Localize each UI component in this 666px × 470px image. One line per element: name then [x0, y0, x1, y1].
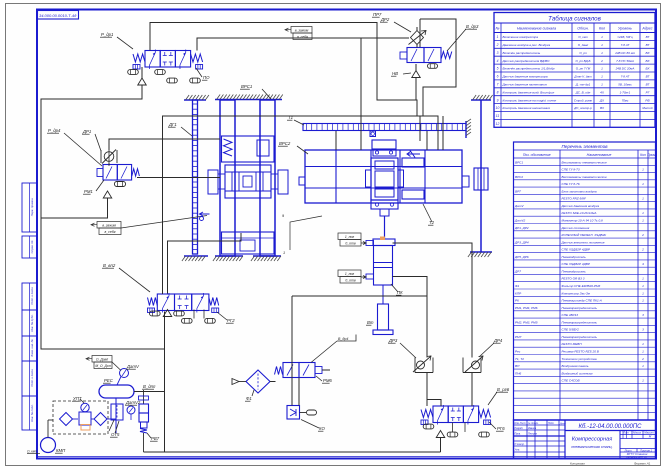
svg-text:1: 1	[642, 299, 644, 303]
tag node в_зажим/в_себя (top)	[291, 27, 312, 34]
svg-text:Пневмодроссель: Пневмодроссель	[562, 269, 587, 273]
svg-text:1: 1	[601, 83, 603, 87]
svg-text:О_Давл: О_Давл	[96, 357, 108, 361]
svg-text:Контроль давления на magist. т: Контроль давления на magist. точке	[503, 98, 557, 102]
svg-text:Справ. №: Справ. №	[30, 241, 34, 254]
svg-text:5: 5	[497, 67, 499, 71]
svg-text:Поз. обозначение: Поз. обозначение	[523, 153, 551, 157]
tag node В_др4	[337, 335, 356, 342]
svg-text:1: 1	[642, 379, 644, 383]
wire: КО outlet	[322, 369, 330, 371]
svg-text:Подп. и дата: Подп. и дата	[30, 369, 34, 387]
svg-text:ВРС2: ВРС2	[515, 175, 523, 179]
svg-text:Вт: Вт	[367, 320, 374, 325]
wire: РМ1 supply branch	[41, 199, 108, 219]
pressure gauge ДатV2	[127, 406, 135, 414]
svg-text:СПЕ 4ВУ43: СПЕ 4ВУ43	[562, 313, 579, 317]
svg-text:В_др3: В_др3	[466, 24, 479, 29]
svg-text:В_дпп: В_дпп	[143, 384, 156, 389]
svg-text:1: 1	[642, 182, 644, 186]
svg-text:Подп.: Подп.	[548, 422, 555, 425]
svg-text:Пневмораспределитель: Пневмораспределитель	[562, 335, 598, 339]
svg-text:СПЕ XSДВ2Р 4ДВР: СПЕ XSДВ2Р 4ДВР	[562, 262, 591, 266]
svg-text:2: 2	[641, 233, 644, 237]
horizontal beam Т1 with rack	[303, 124, 466, 131]
svg-text:FESTO SDE-10-Рк/10мА: FESTO SDE-10-Рк/10мА	[562, 211, 597, 215]
svg-text:ВРС1: ВРС1	[241, 84, 253, 89]
svg-text:7-8 АТ: 7-8 АТ	[621, 43, 631, 47]
wire: РМ1 output to press	[137, 177, 220, 179]
svg-text:Датчик распределителя ВД/ВО: Датчик распределителя ВД/ВО	[502, 59, 550, 63]
svg-text:в_себя: в_себя	[105, 230, 116, 234]
svg-text:Разраб.: Разраб.	[515, 427, 524, 430]
svg-text:1: 1	[642, 342, 644, 346]
svg-text:1-70м-1: 1-70м-1	[620, 90, 631, 94]
svg-text:СПЕ ГУ 8-73: СПЕ ГУ 8-73	[562, 168, 580, 172]
svg-text:Воздушный силенсер: Воздушный силенсер	[562, 371, 593, 375]
svg-text:Рес: Рес	[515, 350, 521, 354]
svg-text:ДР3: ДР3	[388, 338, 398, 343]
svg-text:Прим.: Прим.	[647, 153, 656, 157]
svg-text:1: 1	[642, 350, 644, 354]
svg-text:О_рп ВД.Б: О_рп ВД.Б	[576, 59, 591, 63]
title block (основная надпись)	[514, 420, 656, 459]
svg-text:Т1: Т1	[288, 115, 294, 120]
svg-text:СПЕ С4СОВ: СПЕ С4СОВ	[562, 379, 580, 383]
svg-text:Дата: Дата	[559, 423, 567, 425]
svg-text:ДР7: ДР7	[514, 269, 521, 273]
wire: РЕС to bus	[134, 391, 165, 393]
wire: beam to ВРС2 hangers	[336, 131, 427, 150]
svg-text:4: 4	[497, 59, 499, 63]
svg-text:1: 1	[283, 251, 285, 255]
pressure gauge ДатV	[120, 369, 129, 378]
tag node 1_пол/0_отв (upper)	[338, 233, 361, 240]
svg-text:Ф1: Ф1	[246, 396, 252, 401]
svg-text:ВРС2: ВРС2	[279, 141, 291, 146]
top-left document stamp	[38, 11, 79, 20]
svg-text:4: 4	[642, 262, 644, 266]
svg-text:в_себя: в_себя	[297, 35, 308, 39]
svg-text:КО: КО	[319, 426, 325, 431]
svg-text:Блок заготовки воздуха: Блок заготовки воздуха	[562, 189, 597, 193]
svg-text:Наименование сигнала: Наименование сигнала	[517, 27, 556, 31]
svg-text:Строй_римп: Строй_римп	[574, 98, 593, 102]
svg-text:2: 2	[496, 43, 499, 47]
check valve КО	[287, 406, 300, 420]
svg-text:2: 2	[600, 59, 603, 63]
tag node в_зажим/в_себя (left)	[97, 222, 121, 229]
wire: bottom supply bus	[144, 438, 441, 453]
svg-text:Весозахваты пневматические: Весозахваты пневматические	[562, 160, 607, 164]
svg-text:Давление воздуха в рес. Воздух: Давление воздуха в рес. Воздуха	[502, 43, 551, 47]
svg-text:О_кмп: О_кмп	[27, 450, 37, 454]
svg-text:РЕС: РЕС	[104, 378, 114, 383]
svg-text:ДС_контр-р: ДС_контр-р	[573, 106, 592, 110]
svg-text:1: 1	[642, 211, 644, 215]
svg-text:Воздушная панель: Воздушная панель	[562, 364, 589, 368]
svg-text:Утв.: Утв.	[515, 449, 521, 452]
throttle check valve ДР2	[411, 31, 424, 45]
horizontal press ВРС2	[305, 150, 462, 203]
svg-text:СПЕ 5/3ВУ2: СПЕ 5/3ВУ2	[562, 328, 580, 332]
svg-text:О_рп: О_рп	[579, 51, 587, 55]
svg-text:ПК: ПК	[397, 290, 403, 295]
svg-text:РМ1, РМ4, РМ6: РМ1, РМ4, РМ6	[515, 306, 538, 310]
svg-text:Перв. примен.: Перв. примен.	[30, 197, 34, 216]
svg-text:Инв. № подл.: Инв. № подл.	[30, 404, 34, 422]
svg-text:1: 1	[642, 291, 644, 295]
throttle ДР4	[462, 358, 464, 373]
svg-text:Весозахваты пневматические: Весозахваты пневматические	[562, 175, 607, 179]
svg-text:9: 9	[497, 98, 499, 102]
vertical press ВРС1	[215, 99, 282, 101]
svg-text:10: 10	[496, 106, 500, 110]
svg-text:Пров.: Пров.	[515, 433, 522, 436]
svg-text:М_О_Доп: М_О_Доп	[95, 364, 111, 368]
svg-text:КПР: КПР	[515, 291, 522, 295]
svg-text:№: №	[496, 27, 500, 31]
wire: ПК upper port to РМ5 via ДР4	[393, 243, 473, 406]
svg-text:В_вп2: В_вп2	[103, 263, 116, 268]
svg-text:11: 11	[496, 114, 500, 118]
svg-text:Датчик давления воздуха: Датчик давления воздуха	[561, 204, 600, 208]
stop cylinder Вт	[382, 285, 384, 304]
svg-text:Манометр 10-А 94 10 Ть 0,8: Манометр 10-А 94 10 Ть 0,8	[562, 219, 604, 223]
svg-text:FESTO FRZ-5/8F: FESTO FRZ-5/8F	[562, 197, 587, 201]
svg-text:7-8 ПС 50мА: 7-8 ПС 50мА	[616, 59, 634, 63]
svg-text:Р_др4: Р_др4	[48, 128, 61, 133]
svg-text:РМ6: РМ6	[323, 378, 332, 383]
svg-text:1: 1	[642, 219, 644, 223]
svg-text:Компрессорная: Компрессорная	[572, 437, 612, 443]
svg-text:Кб.-12-04.00.00.000ПС: Кб.-12-04.00.00.000ПС	[579, 424, 643, 430]
left margin stamp boxes	[22, 183, 37, 232]
pressure regulator КлР	[143, 390, 145, 404]
svg-text:Формат А1: Формат А1	[634, 462, 651, 466]
svg-text:ДГ1: ДГ1	[168, 122, 177, 127]
receiver РЕС	[99, 385, 134, 398]
svg-text:Взам. инв. №: Взам. инв. №	[30, 339, 34, 356]
valve body РМ5	[421, 410, 433, 418]
svg-text:=24В, 50Гц: =24В, 50Гц	[617, 35, 633, 39]
svg-text:34.000.00.0010-Т-4д: 34.000.00.0010-Т-4д	[39, 13, 77, 18]
svg-text:кафедра АТП гр.: кафедра АТП гр.	[626, 455, 647, 459]
svg-text:Датчик внешнего положения: Датчик внешнего положения	[561, 240, 605, 244]
svg-text:70мс: 70мс	[622, 98, 629, 102]
svg-text:Контроль давления возд. Востфи: Контроль давления возд. Востфил	[503, 90, 555, 94]
wire: top valve pilot A	[150, 23, 417, 117]
svg-text:Изм Лист: Изм Лист	[515, 422, 526, 425]
svg-text:Пневмораспределитель: Пневмораспределитель	[562, 306, 598, 310]
svg-text:О_давл: О_давл	[578, 43, 589, 47]
svg-text:24В DC 80 мА: 24В DC 80 мА	[614, 51, 635, 55]
svg-text:Подп. и дата: Подп. и дата	[30, 287, 34, 305]
svg-text:КМП: КМП	[56, 448, 66, 453]
svg-text:ДР3, ДР4: ДР3, ДР4	[514, 240, 529, 244]
svg-text:0_отв: 0_отв	[345, 278, 355, 282]
svg-text:2: 2	[641, 248, 644, 252]
svg-text:О_рп 7 ПК: О_рп 7 ПК	[576, 67, 591, 71]
svg-text:Уровень: Уровень	[618, 27, 632, 31]
svg-text:пневматическая станц.: пневматическая станц.	[571, 445, 612, 449]
svg-text:Датчик давления нагнетания: Датчик давления нагнетания	[502, 83, 547, 87]
directional valve РМ1 (left 3/2)	[103, 165, 117, 181]
svg-text:Н.контр.: Н.контр.	[515, 443, 525, 446]
directional valve НВ (top right 3/2)	[407, 48, 424, 63]
wire: РМ3 to beam drive	[168, 233, 242, 294]
throttle ДР3	[414, 358, 416, 373]
svg-text:1: 1	[642, 277, 644, 281]
svg-text:в_зажим: в_зажим	[295, 28, 309, 32]
svg-text:ОТ5: ОТ5	[111, 432, 120, 437]
svg-text:5В, 10мкс: 5В, 10мкс	[618, 83, 632, 87]
directional valve РМ6 (bottom right 3/2)	[275, 367, 283, 375]
svg-text:3: 3	[497, 51, 499, 55]
svg-text:7-8 АТ: 7-8 АТ	[621, 75, 631, 79]
svg-text:№ докум.: № докум.	[528, 422, 539, 425]
svg-text:Датчик давления компрессора: Датчик давления компрессора	[502, 75, 548, 79]
svg-text:ДР1, ДР2: ДР1, ДР2	[514, 226, 529, 230]
svg-text:ВП: ВП	[515, 364, 520, 368]
svg-text:ДатV2: ДатV2	[514, 219, 526, 223]
svg-text:Пневмодроссель: Пневмодроссель	[562, 255, 587, 259]
svg-text:ДР1: ДР1	[82, 129, 92, 134]
svg-text:Включён распределитель 1/1,В/о: Включён распределитель 1/1,В/обр	[503, 67, 555, 71]
svg-text:Инв. № дубл.: Инв. № дубл.	[30, 314, 34, 331]
svg-text:ПО: ПО	[203, 75, 210, 80]
svg-text:Включение компрессора: Включение компрессора	[503, 35, 539, 39]
machine boundary box	[163, 116, 444, 294]
svg-text:Т1, Т2: Т1, Т2	[515, 357, 524, 361]
svg-text:РМ2, РМ3, РМ5: РМ2, РМ3, РМ5	[515, 320, 538, 324]
svg-text:РМ7: РМ7	[515, 335, 522, 339]
svg-text:Р_др1: Р_др1	[101, 32, 114, 37]
vertical guide rail ДГ1	[184, 99, 206, 101]
svg-text:РМ1: РМ1	[84, 189, 93, 194]
svg-text:Толкатели устройства: Толкатели устройства	[562, 357, 597, 361]
svg-text:Д-мп-V_дат: Д-мп-V_дат	[573, 75, 592, 79]
svg-text:Обозн.: Обозн.	[577, 27, 588, 31]
wire: top valve pilot B	[197, 38, 409, 150]
svg-text:2: 2	[641, 357, 644, 361]
svg-text:Ресивер FESTO RZS 20 В: Ресивер FESTO RZS 20 В	[562, 350, 599, 354]
svg-text:FESTO МЕВН: FESTO МЕВН	[562, 342, 583, 346]
svg-text:Включён распределитель: Включён распределитель	[503, 51, 541, 55]
svg-text:Метод: Метод	[642, 106, 653, 110]
boundary box ПР7	[420, 19, 456, 116]
svg-text:ДатV2: ДатV2	[125, 400, 141, 405]
svg-text:РГ6: РГ6	[497, 426, 505, 431]
svg-text:1_пол: 1_пол	[345, 272, 354, 276]
svg-text:Перечень элементов: Перечень элементов	[561, 144, 608, 149]
svg-text:3: 3	[642, 313, 644, 317]
wire: РМ1 pilot from ДР1	[109, 139, 220, 165]
svg-text:ДатV: ДатV	[514, 204, 524, 208]
svg-text:ДС_В_одн: ДС_В_одн	[575, 90, 591, 94]
svg-text:ДР4: ДР4	[493, 338, 503, 343]
ceiling support right	[471, 99, 491, 101]
svg-text:FESTO GR В3 3: FESTO GR В3 3	[562, 277, 585, 281]
outer frame thin black bottom line	[8, 465, 660, 467]
svg-text:О_кмп: О_кмп	[578, 35, 587, 39]
throttle check valve ДР1	[100, 150, 102, 163]
svg-text:ДР2: ДР2	[380, 17, 390, 22]
svg-text:РГ2: РГ2	[227, 318, 235, 323]
svg-text:Адрес: Адрес	[641, 27, 652, 31]
pneumatic cylinder ПК	[373, 239, 395, 246]
valve body РМ2	[133, 54, 145, 62]
svg-text:1: 1	[601, 51, 603, 55]
wire: РМ3 down to bottom bus	[164, 312, 166, 453]
svg-text:ПР7: ПР7	[373, 12, 382, 17]
svg-text:Контроль давления нагнетания: Контроль давления нагнетания	[503, 106, 551, 110]
svg-text:Фильтр СПЕ Е4РВ26-РМ3: Фильтр СПЕ Е4РВ26-РМ3	[562, 284, 601, 288]
svg-text:6: 6	[497, 75, 499, 79]
svg-text:8: 8	[497, 90, 499, 94]
svg-text:РВ: РВ	[645, 98, 649, 102]
svg-text:1: 1	[642, 168, 644, 172]
valve body РМ3	[148, 298, 158, 306]
elements list table (Перечень элементов)	[514, 142, 656, 420]
svg-text:СПЕ XSДВ2Р 4ДВР: СПЕ XSДВ2Р 4ДВР	[562, 248, 591, 252]
svg-text:ДР5, ДР6: ДР5, ДР6	[514, 255, 529, 259]
svg-text:Иванов: Иванов	[528, 427, 537, 430]
svg-text:ВРС1: ВРС1	[515, 160, 523, 164]
svg-text:РК: РК	[515, 299, 519, 303]
signal table (Таблица сигналов)	[494, 13, 655, 128]
tag node О_Давл/М_О_Доп	[92, 356, 112, 363]
svg-text:1: 1	[601, 67, 603, 71]
svg-text:В_др4: В_др4	[338, 337, 348, 341]
svg-text:РГ: РГ	[646, 90, 650, 94]
svg-text:Копировал: Копировал	[570, 462, 585, 466]
svg-text:Лит: Лит	[622, 431, 629, 435]
svg-text:СПЕ ГУ 8-76: СПЕ ГУ 8-76	[562, 182, 580, 186]
svg-text:1: 1	[642, 197, 644, 201]
svg-text:1: 1	[601, 35, 603, 39]
wire: supply loop left	[41, 67, 165, 349]
filter Ф1	[246, 370, 270, 393]
svg-text:Пневмоцилиндр СПЕ ПК1-А: Пневмоцилиндр СПЕ ПК1-А	[562, 299, 602, 303]
svg-text:В_рг6: В_рг6	[497, 387, 510, 392]
svg-text:0_отв: 0_отв	[345, 241, 355, 245]
air prep unit УПТ (dashed box)	[53, 401, 108, 434]
svg-text:24В DC 20мА: 24В DC 20мА	[615, 67, 635, 71]
svg-text:Таблица сигналов: Таблица сигналов	[548, 16, 601, 23]
svg-text:КОНЕЧНЫЙ ПЕРЕКЛ. ХSДВ2К: КОНЕЧНЫЙ ПЕРЕКЛ. ХSДВ2К	[562, 233, 607, 237]
svg-text:3: 3	[642, 328, 644, 332]
svg-text:Петров: Петров	[528, 433, 538, 436]
water separator ФВ	[115, 398, 117, 433]
svg-text:РВ7: РВ7	[151, 436, 160, 441]
svg-text:Д_-мп-др1: Д_-мп-др1	[575, 83, 591, 87]
svg-text:НВ: НВ	[392, 71, 398, 76]
svg-text:Ф1: Ф1	[515, 284, 519, 288]
svg-text:ДатV: ДатV	[126, 364, 140, 369]
compressor КМП	[41, 438, 56, 453]
svg-text:Наименование: Наименование	[587, 153, 612, 157]
svg-text:ПН6: ПН6	[515, 371, 521, 375]
svg-text:7: 7	[497, 83, 499, 87]
svg-text:1: 1	[642, 284, 644, 288]
svg-text:Датчик положения: Датчик положения	[561, 226, 590, 230]
svg-text:1_пол: 1_пол	[345, 235, 354, 239]
wire: ПК lower port to РМ5 via ДР3	[393, 277, 442, 407]
svg-text:1: 1	[497, 35, 499, 39]
svg-text:1: 1	[601, 75, 603, 79]
svg-text:Масса: Масса	[633, 431, 641, 435]
svg-text:1: 1	[601, 43, 603, 47]
svg-text:в_зажим: в_зажим	[102, 223, 116, 227]
wire: НВ supply	[416, 27, 417, 100]
svg-text:1: 1	[642, 364, 644, 368]
svg-text:Кол: Кол	[599, 27, 605, 31]
wire: РМ6 subsystem	[292, 296, 427, 406]
svg-text:УПТ: УПТ	[73, 396, 82, 401]
svg-text:Пневмораспределитель: Пневмораспределитель	[562, 320, 598, 324]
svg-text:Компрессор Зас-Зм: Компрессор Зас-Зм	[562, 291, 591, 295]
tag node 1_пол/0_отв (lower)	[338, 270, 361, 277]
svg-text:12: 12	[496, 122, 500, 126]
svg-text:Кол: Кол	[640, 153, 646, 157]
